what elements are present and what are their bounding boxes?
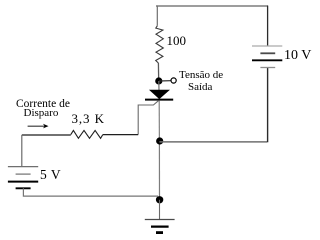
label 100 [167, 33, 187, 49]
SCR gate wire [138, 101, 158, 135]
battery V1 10V plate short bottom [260, 67, 275, 69]
label 3,3 K [72, 111, 105, 127]
wire node B down to node C [158, 141, 160, 200]
wire node A to SCR anode [158, 81, 160, 91]
wire top horizontal [156, 5, 268, 7]
resistor R1 100 zigzag [156, 26, 164, 63]
wire SCR cathode down to node B [158, 101, 160, 141]
wire resistor R2 to gate [103, 134, 138, 136]
label 10 V [284, 48, 311, 64]
trigger current arrow [28, 125, 45, 127]
wire left vertical down to battery V2 [21, 135, 23, 166]
node B junction dot [156, 137, 163, 144]
label Tensao de Saida [179, 69, 223, 81]
wire trigger line from 5V to resistor R2 [22, 134, 71, 136]
wire battery V1 right vertical [267, 68, 269, 142]
node C junction dot [156, 196, 163, 203]
SCR Q1 cathode bar [145, 99, 173, 101]
wire top right vertical into battery V1 [267, 6, 269, 46]
node A junction dot [155, 77, 162, 84]
wire resistor to node A [157, 63, 159, 81]
resistor R2 3,3K zigzag [71, 130, 103, 138]
wire left vertical to resistor R1 [156, 6, 158, 26]
wire node B to battery V1 bottom [159, 141, 267, 143]
battery V2 5V plate long lower [8, 181, 38, 183]
ground symbol line 3 [156, 231, 163, 234]
wire node A to output terminal [159, 80, 171, 82]
battery V1 10V plate long lower [252, 59, 282, 61]
battery V1 10V plate long top [252, 45, 282, 47]
wire node C to ground [159, 200, 161, 219]
label 5 V [40, 167, 61, 183]
battery V2 5V plate long top [8, 166, 38, 168]
ground symbol line 2 [151, 226, 169, 228]
label Corrente de Disparo [16, 98, 70, 110]
battery V1 10V plate short upper [260, 52, 275, 54]
ground symbol line 1 [145, 219, 175, 221]
battery V2 5V plate short upper [16, 173, 31, 175]
output terminal open circle [171, 78, 176, 83]
wire battery V2 bottom to node C [23, 188, 158, 196]
SCR Q1 anode triangle [150, 90, 169, 98]
battery V2 5V plate short bottom [16, 187, 31, 189]
